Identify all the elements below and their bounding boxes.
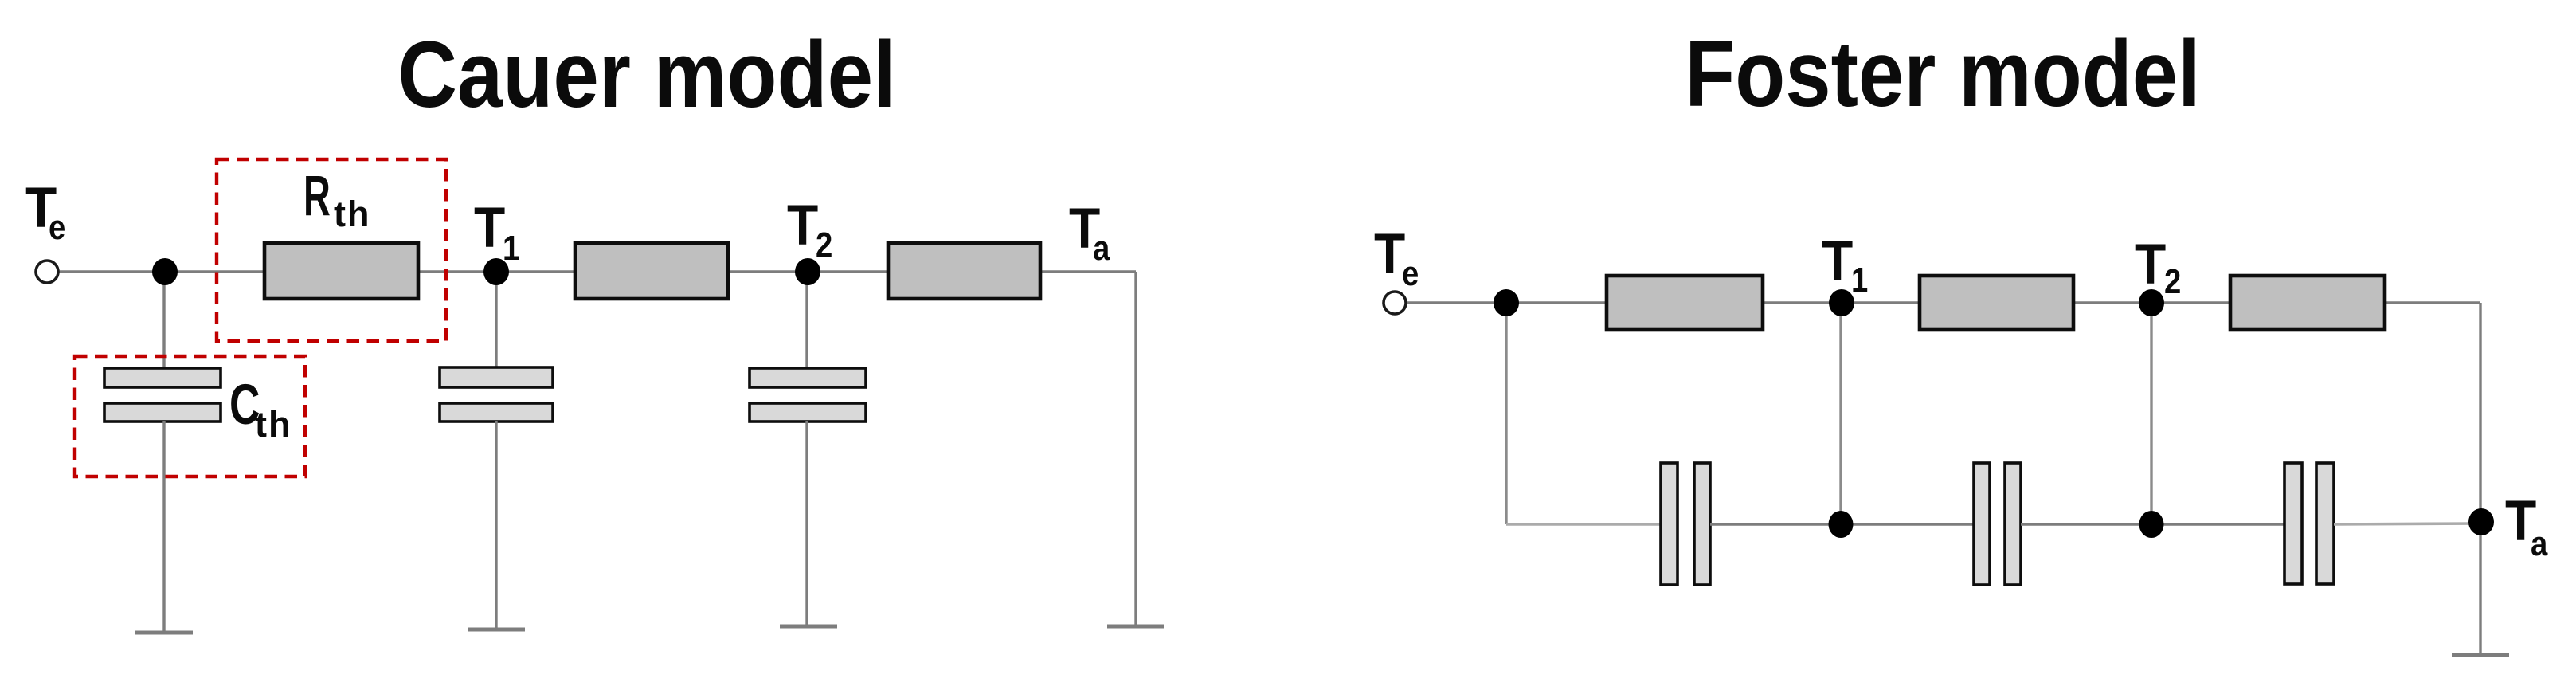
- junction lower node 1: [1829, 511, 1854, 538]
- red dashed box around Rth: [217, 159, 446, 341]
- capacitor CF3 plates: [2284, 463, 2334, 584]
- wire R2 to T2: [730, 270, 887, 273]
- svg-text:1: 1: [1851, 261, 1868, 300]
- svg-text:a: a: [2531, 524, 2548, 563]
- wire CF2 to lower node 2: [2021, 523, 2151, 525]
- label T2 Cauer: [787, 194, 832, 265]
- svg-text:e: e: [49, 208, 65, 247]
- node dot input Foster: [1494, 289, 1519, 316]
- wire T1 down to lower rail: [1839, 303, 1842, 524]
- node T2 Foster: [2139, 289, 2164, 316]
- svg-text:2: 2: [816, 225, 832, 265]
- label Rth: [303, 164, 370, 234]
- label T1 Foster: [1822, 230, 1868, 300]
- label Ta Cauer: [1069, 198, 1110, 268]
- node dot input Cauer: [152, 258, 178, 285]
- wire input node down: [1505, 303, 1507, 524]
- wire F3 to right corner: [2386, 301, 2480, 304]
- terminal Te circle Cauer: [36, 261, 58, 283]
- wire main rail Cauer: [57, 270, 263, 273]
- svg-text:a: a: [1093, 229, 1110, 268]
- capacitor CF1 plates: [1661, 463, 1710, 585]
- svg-text:T: T: [474, 197, 505, 260]
- capacitor C2 plates: [440, 367, 553, 421]
- node T1 Cauer: [483, 258, 509, 285]
- capacitor Cth plates: [104, 368, 221, 421]
- wire CF3 to Ta node: [2334, 523, 2480, 524]
- resistor Rth: [264, 243, 418, 299]
- red dashed box around Cth: [75, 356, 305, 476]
- svg-text:R: R: [303, 164, 331, 227]
- wire R1 to T1: [420, 270, 574, 273]
- wire Cth to ground: [162, 421, 165, 632]
- wire C3 to ground: [805, 421, 808, 625]
- label Te Foster: [1374, 223, 1419, 293]
- node T1 Foster: [1829, 289, 1854, 316]
- ground under Cth: [135, 631, 193, 635]
- wire C2 to ground: [495, 421, 497, 629]
- wire right side drop to ground: [2479, 303, 2481, 655]
- wire lower node 2 to CF3: [2151, 523, 2284, 525]
- wire F1 to T1: [1764, 301, 1918, 304]
- resistor R2 Cauer: [575, 243, 728, 299]
- capacitor C3 plates: [750, 368, 866, 421]
- label Te Cauer: [25, 177, 65, 247]
- resistor F1: [1607, 276, 1763, 330]
- ground right terminal: [1107, 625, 1164, 629]
- wire CF1 to lower node 1: [1710, 523, 1841, 525]
- wire T2 down to lower rail: [2150, 303, 2152, 524]
- svg-text:th: th: [255, 404, 292, 445]
- label T1 Cauer: [474, 197, 519, 268]
- svg-text:Foster model: Foster model: [1685, 22, 2200, 127]
- wire T1 to C2: [495, 272, 497, 368]
- title Cauer model: [397, 23, 895, 127]
- capacitor CF2 plates: [1974, 463, 2021, 585]
- svg-text:T: T: [1822, 230, 1853, 293]
- wire F2 to T2: [2075, 301, 2229, 304]
- wire lower rail left segment: [1506, 523, 1662, 526]
- resistor F3: [2230, 276, 2385, 330]
- svg-text:2: 2: [2164, 262, 2181, 301]
- wire T2 to C3: [805, 272, 808, 368]
- ground bottom right Foster: [2452, 653, 2509, 657]
- title Foster model: [1685, 22, 2200, 127]
- label T2 Foster: [2135, 233, 2181, 301]
- resistor F2: [1920, 276, 2073, 330]
- svg-text:Cauer model: Cauer model: [397, 23, 895, 127]
- wire main rail Foster: [1406, 301, 1605, 304]
- resistor R3 Cauer: [888, 243, 1040, 299]
- wire right terminal drop: [1134, 272, 1137, 626]
- svg-text:T: T: [1374, 223, 1405, 286]
- wire lower node 1 to CF2: [1841, 523, 1974, 525]
- svg-text:th: th: [334, 194, 370, 234]
- svg-text:e: e: [1402, 254, 1419, 293]
- ground under C3: [780, 625, 837, 629]
- node T2 Cauer: [795, 258, 820, 285]
- wire node to Cth: [162, 272, 165, 369]
- ground under C2: [468, 628, 525, 632]
- svg-text:1: 1: [503, 229, 519, 268]
- label Cth: [229, 374, 292, 445]
- label Ta Foster: [2505, 490, 2548, 563]
- node Ta Foster: [2468, 508, 2494, 535]
- wire R3 to right corner: [1042, 270, 1136, 273]
- svg-text:T: T: [787, 194, 818, 257]
- junction lower node 2: [2139, 511, 2164, 538]
- terminal Te circle Foster: [1384, 292, 1406, 314]
- svg-text:T: T: [2135, 233, 2166, 296]
